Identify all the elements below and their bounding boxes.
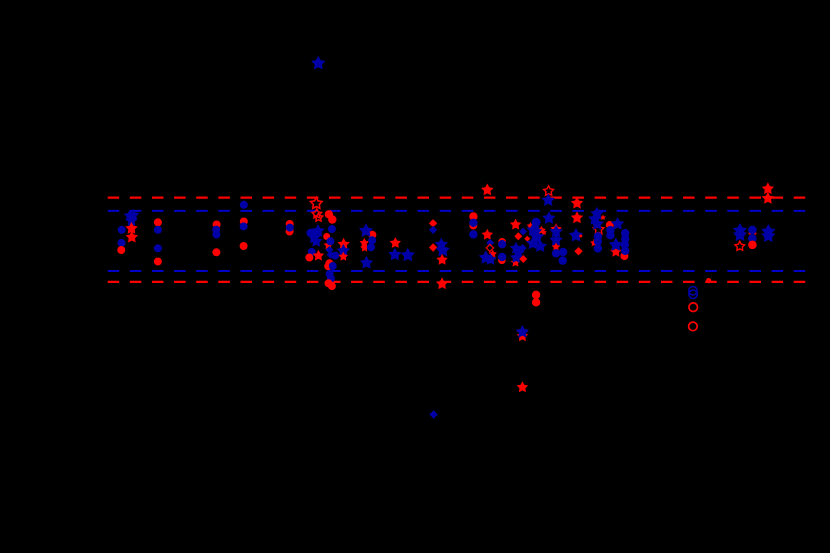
red star bbox=[125, 222, 137, 234]
blue star bbox=[510, 251, 522, 263]
blue star big bbox=[761, 229, 775, 243]
red circle bbox=[286, 220, 294, 228]
blue star bbox=[542, 211, 555, 224]
red circle bbox=[154, 258, 162, 266]
blue diamond bbox=[327, 251, 335, 259]
red star small bbox=[360, 244, 369, 252]
red star open bbox=[314, 213, 323, 221]
red circle bbox=[213, 221, 221, 229]
blue circle bbox=[326, 270, 334, 278]
blue star bbox=[569, 228, 583, 242]
red star bits bbox=[552, 243, 561, 251]
blue circle bbox=[559, 248, 567, 256]
blue circle bbox=[308, 248, 316, 256]
red marker on line bbox=[706, 278, 711, 283]
red dot bits bbox=[754, 232, 757, 235]
red star bbox=[510, 219, 521, 230]
blue diamond bbox=[326, 246, 334, 254]
red star bits bbox=[541, 229, 547, 235]
red star bbox=[337, 238, 349, 250]
blue star outlier bbox=[516, 325, 529, 338]
blue star on line bbox=[542, 193, 555, 206]
red star outlier bbox=[517, 330, 528, 341]
blue circle bbox=[498, 240, 506, 248]
red circle bbox=[748, 241, 757, 250]
red circle bbox=[498, 238, 506, 246]
red star bits bbox=[537, 226, 546, 234]
red circle under bbox=[620, 252, 628, 260]
blue circle bbox=[240, 222, 248, 230]
blue circle bbox=[621, 229, 629, 237]
red star open bbox=[312, 209, 322, 218]
blue star bbox=[337, 244, 350, 257]
red star bbox=[550, 223, 561, 234]
red star bbox=[436, 254, 447, 265]
blue star bbox=[125, 214, 137, 226]
red star bits bbox=[590, 239, 598, 246]
red diamond bbox=[574, 247, 582, 255]
red dashed line lower (-2 sigma) bbox=[108, 281, 806, 283]
blue dashed line lower (-1 sigma) bbox=[108, 270, 806, 272]
blue star big bbox=[733, 223, 747, 237]
red circle bbox=[286, 228, 294, 236]
blue circle bbox=[621, 235, 629, 243]
blue star bbox=[484, 253, 496, 265]
red circle hidden bbox=[368, 231, 376, 239]
blue diamond outlier bbox=[429, 410, 437, 418]
blue circle bbox=[154, 244, 162, 252]
red star bbox=[762, 182, 774, 194]
blue star bbox=[388, 248, 401, 261]
red star hidden bbox=[511, 258, 521, 267]
blue star bbox=[591, 217, 604, 230]
red circle bbox=[498, 257, 506, 265]
blue star bbox=[530, 225, 542, 237]
blue circle bbox=[498, 253, 506, 261]
blue star bbox=[127, 209, 139, 221]
blue circle bbox=[327, 275, 335, 283]
blue circle bbox=[594, 244, 602, 252]
blue star big bbox=[733, 228, 747, 242]
red star bbox=[313, 250, 324, 261]
blue circle bbox=[532, 218, 541, 227]
blue star bbox=[530, 230, 544, 244]
blue star bbox=[311, 224, 324, 237]
red dot bits bbox=[749, 232, 752, 235]
blue circle bbox=[748, 226, 757, 235]
red circle hidden bbox=[323, 233, 330, 240]
red star small bbox=[360, 238, 370, 247]
blue circle bbox=[531, 224, 539, 232]
blue star outlier top bbox=[311, 56, 325, 70]
blue circle bbox=[154, 226, 162, 234]
red circle bbox=[154, 218, 162, 226]
blue star bbox=[590, 207, 603, 220]
red circle bbox=[325, 210, 333, 218]
red circle outlier bbox=[532, 291, 540, 299]
red circle bbox=[325, 259, 333, 267]
blue circle bbox=[328, 225, 336, 233]
blue circle bbox=[367, 243, 375, 251]
blue star bbox=[512, 247, 524, 259]
red dashed line upper (+2 sigma) bbox=[108, 196, 806, 198]
red star bbox=[571, 211, 583, 223]
red star open bbox=[735, 241, 745, 250]
red circle bbox=[328, 215, 336, 223]
blue circle bbox=[118, 226, 126, 234]
blue star bbox=[435, 238, 448, 251]
blue circle bbox=[240, 201, 248, 209]
blue circle bbox=[306, 229, 314, 237]
blue star bbox=[479, 250, 493, 264]
red diamond open bbox=[486, 244, 493, 251]
blue star bbox=[549, 225, 562, 238]
red circle bbox=[212, 248, 220, 256]
blue star bbox=[588, 212, 601, 225]
blue star bbox=[549, 233, 562, 246]
red circle bbox=[328, 282, 336, 290]
red circle bbox=[240, 242, 248, 250]
red diamond bbox=[429, 219, 437, 227]
blue circle bbox=[286, 224, 294, 232]
blue star bbox=[436, 243, 450, 257]
red star open bbox=[311, 197, 322, 208]
red circle bbox=[469, 222, 477, 230]
blue circle bbox=[469, 219, 477, 227]
red circle bbox=[117, 246, 125, 254]
blue circle bbox=[594, 232, 602, 240]
red circle bbox=[240, 218, 248, 226]
blue circle bbox=[368, 236, 376, 244]
blue circle bbox=[559, 256, 567, 264]
red diamond bbox=[429, 243, 437, 251]
red star bbox=[390, 237, 401, 248]
red star bbox=[482, 229, 493, 240]
blue circle bbox=[329, 262, 337, 270]
blue open circle bbox=[689, 287, 697, 295]
red circle bbox=[469, 212, 477, 220]
blue star bbox=[526, 237, 539, 250]
blue circle bbox=[118, 239, 126, 247]
blue circle bbox=[748, 234, 757, 243]
blue star bbox=[360, 256, 373, 269]
blue star bbox=[609, 237, 623, 251]
red star bits bbox=[489, 250, 498, 258]
red star bits bbox=[600, 215, 606, 220]
red star on line bbox=[762, 192, 774, 204]
blue star bbox=[401, 248, 415, 262]
blue star bbox=[124, 209, 136, 221]
red dot bits bbox=[579, 235, 582, 238]
red circle bbox=[606, 221, 614, 229]
blue star bbox=[534, 239, 547, 252]
blue star big bbox=[761, 224, 775, 238]
blue diamond bbox=[429, 226, 437, 234]
red star bbox=[126, 231, 138, 243]
blue circle bbox=[594, 237, 602, 245]
red star bbox=[339, 252, 349, 261]
red circle bbox=[305, 254, 313, 262]
blue circle bbox=[469, 230, 477, 238]
red star outlier top bbox=[481, 184, 493, 196]
red diamond bbox=[519, 255, 527, 263]
blue circle bbox=[331, 252, 339, 260]
red star open under bbox=[593, 224, 603, 234]
red circle bbox=[324, 262, 332, 270]
blue circle bbox=[606, 231, 614, 239]
red diamond bits bbox=[524, 236, 530, 242]
red star open bbox=[544, 186, 554, 195]
red open circle bbox=[689, 322, 698, 331]
blue star bbox=[308, 231, 321, 244]
blue circle bbox=[621, 247, 629, 255]
blue star bbox=[611, 217, 624, 230]
blue dashed line upper (+1 sigma) bbox=[108, 210, 806, 212]
blue circle bbox=[212, 226, 220, 234]
blue circle bbox=[621, 240, 629, 248]
red open circle bbox=[689, 303, 698, 312]
red star on line bbox=[436, 277, 448, 289]
blue diamond bbox=[519, 244, 527, 252]
red star under bbox=[610, 246, 621, 257]
blue circle bbox=[552, 249, 560, 257]
blue circle bbox=[212, 231, 220, 239]
blue diamond bbox=[486, 239, 494, 247]
blue star bbox=[510, 242, 522, 254]
blue star bbox=[359, 223, 373, 237]
red star bbox=[324, 240, 334, 249]
red diamond bbox=[514, 232, 522, 240]
red star bits bbox=[527, 222, 535, 229]
red circle outlier bbox=[532, 298, 540, 306]
red circle bbox=[325, 279, 333, 287]
blue open circle bbox=[689, 290, 697, 298]
blue star bbox=[310, 235, 322, 247]
red star outlier low bbox=[517, 381, 528, 392]
blue diamond bbox=[519, 228, 527, 236]
blue circle bbox=[606, 226, 614, 234]
blue circle bbox=[326, 237, 334, 245]
blue star bbox=[526, 223, 539, 236]
red star bbox=[571, 197, 583, 209]
